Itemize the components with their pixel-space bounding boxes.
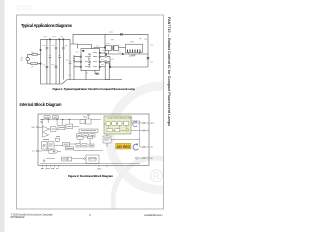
- fuse F1: [32, 54, 37, 56]
- wire pins to bottom: [73, 67, 75, 80]
- block logic s1: [77, 134, 82, 137]
- block logic s3: [90, 134, 95, 137]
- block and gate: [112, 122, 116, 125]
- wire fuse to rail: [37, 53, 40, 55]
- wire driver to out: [111, 139, 140, 141]
- node dot D: [49, 39, 50, 40]
- resistor R1: [96, 73, 98, 75]
- pin circles left: [80, 56, 82, 58]
- block aux1: [56, 138, 60, 141]
- label bottom pins: [41, 167, 59, 169]
- wire bottom rail right: [67, 79, 122, 81]
- faint tab top-left: [17, 6, 31, 11]
- wire top rail right: [73, 33, 148, 35]
- pin stub b4: [54, 165, 56, 167]
- capacitor C6 lower: [55, 66, 58, 67]
- block b2: [68, 157, 72, 161]
- block aux2: [77, 137, 83, 140]
- capacitor C11 series top rail: [121, 33, 122, 36]
- wire IC left pins: [74, 57, 80, 67]
- block ref2: [53, 116, 59, 119]
- block uvlo: [86, 119, 91, 124]
- ground sym: [43, 159, 45, 163]
- pin right VS: [143, 146, 145, 148]
- green highlight region: [104, 116, 131, 134]
- lamp filaments: [128, 50, 141, 53]
- wire top rail left: [41, 38, 71, 40]
- block cmp2: [58, 125, 65, 130]
- capacitor C4: [69, 44, 72, 80]
- svg-text:www.fairchildsemi.com: www.fairchildsemi.com: [144, 214, 163, 217]
- node dot C: [122, 53, 123, 54]
- pin stub b2: [46, 165, 48, 167]
- wire IC bottom drops: [86, 71, 99, 80]
- wire bus drops: [42, 120, 69, 127]
- diode D1: [49, 39, 51, 84]
- svg-text:GND: GND: [97, 169, 102, 171]
- block out driver: [103, 136, 111, 143]
- label uvlo: [45, 116, 58, 118]
- capacitor C5 lower: [46, 66, 49, 67]
- svg-text:VDD: VDD: [83, 117, 88, 119]
- svg-text:Lamp removal detection block: Lamp removal detection block: [108, 117, 133, 120]
- wire inductor to rail: [37, 63, 40, 65]
- block ref1: [44, 116, 50, 119]
- block ff: [124, 121, 129, 125]
- pin circles right: [99, 52, 101, 54]
- svg-text:Figure 2. Functional Block: Figure 2. Functional Block Diagram: [68, 174, 113, 178]
- wire IC top feed: [78, 45, 92, 49]
- AC source V1: [26, 57, 29, 60]
- left gray edge strip: [0, 0, 5, 232]
- label t row: [77, 144, 93, 146]
- block labels smudges: [41, 117, 110, 168]
- label bar: [81, 130, 96, 132]
- wire bottom jog: [62, 80, 67, 84]
- diode D2: [58, 39, 60, 84]
- block t1: [76, 144, 80, 147]
- block or gate: [118, 122, 122, 125]
- pin left INV: [36, 126, 38, 128]
- IC U1 FAN7710: [80, 49, 101, 71]
- node dot bus4: [62, 119, 63, 120]
- svg-text:FAN7710 • Rev. 1.0.2: FAN7710 • Rev. 1.0.2: [11, 216, 26, 219]
- pin left CT: [36, 150, 38, 152]
- pin right FB: [143, 157, 145, 159]
- block logic s2: [83, 134, 89, 137]
- label cmp row: [52, 126, 72, 129]
- pin stub gnd: [99, 165, 107, 167]
- transformer core: [112, 46, 113, 51]
- osc sawtooth mark: [43, 144, 46, 147]
- comparator tri: [55, 149, 58, 153]
- pin labels outside: [32, 117, 156, 171]
- svg-text:FAN7710: FAN7710: [88, 53, 92, 67]
- wire osc to phase: [54, 144, 76, 145]
- wire IC right pin1: [101, 52, 105, 54]
- pin circle bus: [41, 121, 42, 122]
- label osc: [49, 144, 73, 148]
- label b row: [62, 158, 66, 160]
- wire right vertical: [131, 121, 140, 147]
- wire lowside left: [46, 158, 84, 160]
- green box internals: [104, 121, 129, 131]
- capacitor C10 series: [147, 58, 149, 59]
- svg-text:15V REG: 15V REG: [117, 145, 131, 149]
- node dot G: [40, 63, 41, 64]
- wire return mid: [110, 66, 148, 68]
- wire top bus: [40, 119, 101, 121]
- transformer T1 secondary box: [105, 63, 109, 80]
- pin right OUT: [143, 122, 145, 124]
- block cmp1: [50, 127, 56, 131]
- wire right pin4: [101, 66, 106, 68]
- pin stub b1: [42, 165, 44, 167]
- pin circle lowside: [84, 158, 86, 160]
- wire level bar feed: [49, 126, 79, 129]
- svg-text:Internal Block Diagram: Internal Block Diagram: [20, 102, 62, 107]
- node circle lamp: [126, 129, 129, 132]
- block div: [49, 150, 53, 153]
- block t2: [82, 144, 87, 147]
- node dot B: [105, 53, 106, 54]
- wire into IC top: [73, 44, 78, 49]
- wire bottom bus: [40, 162, 140, 164]
- pin stub b3: [50, 165, 52, 167]
- annotation icon 2 (rotate): [133, 143, 138, 150]
- watermark registered mark: [150, 170, 162, 182]
- wire aux to lamp: [119, 47, 126, 49]
- op-amp A1: [43, 126, 50, 132]
- wire left rail: [40, 39, 42, 84]
- page background: [0, 0, 180, 232]
- pin VDD top: [88, 114, 90, 116]
- label logic row: [78, 134, 95, 136]
- block t3: [89, 144, 94, 147]
- wire mid horizontal: [74, 149, 103, 151]
- node dot F: [40, 49, 41, 50]
- block osc core: [42, 142, 47, 149]
- transformer T1 aux winding: [114, 46, 119, 51]
- pin1 mark: [82, 50, 84, 52]
- block latch: [106, 122, 110, 125]
- capacitor C3: [62, 39, 65, 79]
- block level shifter: [79, 129, 98, 132]
- pin stub b5: [58, 165, 60, 167]
- capacitor C7: [73, 55, 75, 67]
- wire bottom rail left: [41, 83, 63, 85]
- node circle fb: [136, 157, 138, 159]
- page frame: [17, 15, 164, 209]
- lamp terminals: [129, 53, 140, 55]
- lowside inner mark: [89, 158, 96, 162]
- capacitor C1: [46, 39, 49, 84]
- node dot bus1: [42, 119, 43, 120]
- node dot bus5: [69, 119, 70, 120]
- wire lamp feed: [105, 53, 148, 55]
- wire aux drops: [57, 139, 90, 144]
- capacitor C2: [55, 39, 58, 84]
- node dot I: [104, 47, 105, 48]
- block phase: [63, 142, 70, 146]
- wire AC to fuse: [28, 54, 32, 57]
- block b1: [62, 157, 67, 161]
- wire driver up: [106, 134, 108, 147]
- node dot A: [109, 66, 110, 67]
- wire resonant node: [105, 34, 108, 54]
- block delay: [115, 129, 120, 132]
- svg-text:LAMP: LAMP: [129, 55, 136, 58]
- wire right drop: [147, 34, 149, 67]
- block sense: [107, 129, 113, 132]
- watermark swirl: [110, 86, 214, 240]
- node dot bus3: [57, 119, 58, 120]
- node dot H: [63, 39, 64, 40]
- annotation icon 1 (rotate): [133, 121, 137, 127]
- block osc cmp: [48, 142, 54, 149]
- wire VB feed: [94, 48, 105, 49]
- pin right LO: [143, 130, 145, 132]
- capacitor C9: [105, 61, 107, 62]
- transformer T1 primary: [105, 46, 111, 51]
- circuit label smudges: [43, 32, 154, 75]
- block cmp3: [66, 124, 73, 129]
- block diagram outer box: [38, 114, 149, 165]
- capacitor C8: [105, 56, 107, 57]
- node dot E: [59, 39, 60, 40]
- pin name boxes inside: [93, 53, 97, 67]
- block aux3: [88, 136, 93, 138]
- svg-text:Figure 1. Typical Applicati: Figure 1. Typical Application Circuit fo…: [53, 87, 136, 91]
- label driver: [88, 138, 110, 159]
- yellow highlight block: [116, 143, 131, 149]
- inductor LF: [28, 61, 31, 64]
- block vdd sense: [80, 120, 85, 124]
- wire green internals: [104, 124, 126, 131]
- block lowside: [86, 155, 99, 164]
- svg-text:Typical Applications Diagrams: Typical Applications Diagrams: [21, 23, 73, 28]
- circuit small labels: [21, 39, 148, 69]
- node dot bus2: [48, 119, 49, 120]
- block deadtime: [65, 147, 74, 150]
- svg-text:FAN7710 — Ballast Control IC f: FAN7710 — Ballast Control IC for Compact…: [167, 17, 171, 126]
- wire mid row: [42, 149, 61, 152]
- label cluster top: [43, 137, 60, 140]
- op-amp A2: [43, 132, 49, 137]
- wire link rails: [70, 34, 73, 44]
- lamp LP1: [126, 44, 143, 54]
